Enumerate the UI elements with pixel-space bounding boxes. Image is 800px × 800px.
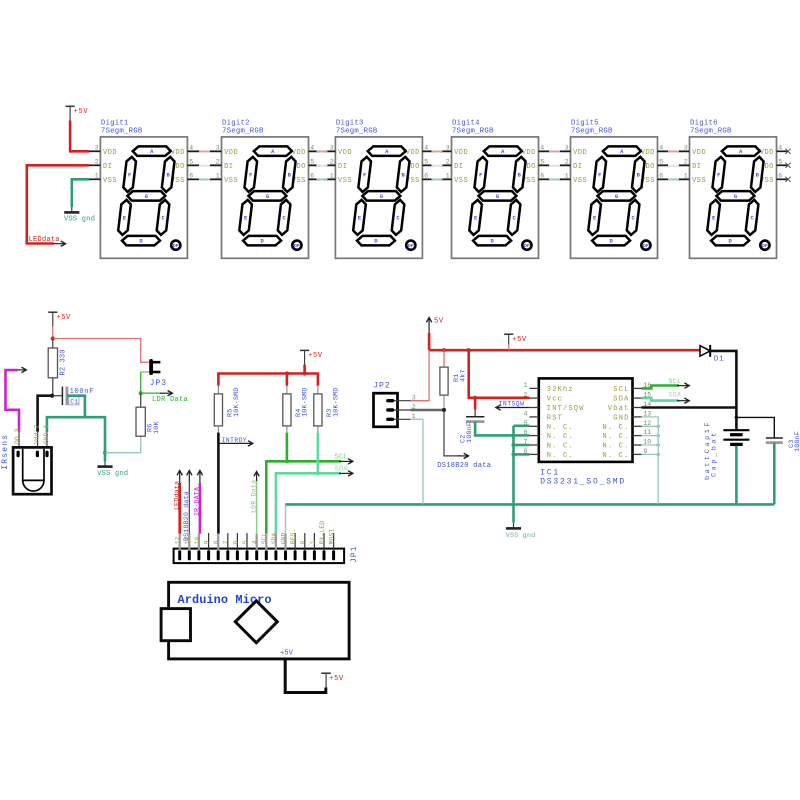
net label DS18B20 data at JP1 pin 11 (183, 471, 192, 542)
svg-text:Digit5: Digit5 (571, 120, 599, 128)
svg-text:RES.: RES. (290, 529, 297, 545)
svg-text:7Segm_RGB: 7Segm_RGB (452, 127, 494, 135)
pin header JP1 (174, 546, 359, 564)
net label SDA (IC1) (642, 391, 690, 403)
svg-text:INT/SQW: INT/SQW (547, 405, 585, 413)
svg-text:LEDdata: LEDdata (173, 481, 180, 510)
wires between Digit5 and Digit6 (VDD, DO-DI, VSS nets) (658, 151, 690, 179)
wire LDR node to R6 (140, 393, 142, 407)
wire node A to C1 (52, 395, 62, 397)
wire battery to ground rail (735, 446, 738, 505)
net label LDR Data at JP1 pin 4 (250, 472, 259, 534)
wire battery node down (735, 408, 738, 431)
svg-text:9: 9 (204, 540, 211, 544)
net label INTRDY (218, 437, 252, 446)
net label 5V (arrow, JP2 section) (426, 317, 444, 333)
svg-text:12: 12 (175, 536, 182, 544)
wire Vbat to battery/diode node (642, 406, 737, 409)
svg-text:JP1: JP1 (350, 546, 359, 563)
svg-text:100nF: 100nF (466, 422, 474, 443)
7-segment display Digit2 (210, 120, 320, 259)
junction DS18B20 node (442, 408, 446, 412)
svg-text:7: 7 (223, 540, 230, 544)
+5V power symbol (Arduino) (321, 673, 344, 687)
wire +5V to Digit1 VDD (70, 121, 89, 152)
resistor R5 10K-SMD (214, 386, 241, 433)
svg-text:C1: C1 (70, 398, 79, 405)
+5V rail (RTC section) (429, 349, 700, 352)
svg-text:4k7: 4k7 (459, 369, 467, 382)
svg-text:+5V: +5V (74, 108, 89, 116)
wire JP2 pin1 to ground rail (411, 419, 424, 504)
net label SCL (middle) (287, 454, 353, 464)
wire C3 to ground rail (773, 443, 776, 505)
wires between Digit1 and Digit2 (VDD, DO-DI, VSS nets) (187, 151, 221, 179)
wire JP2 pin2 to R1 node (411, 409, 445, 411)
wires between Digit2 and Digit3 (VDD, DO-DI, VSS nets) (309, 151, 336, 179)
svg-text:SCL: SCL (669, 378, 682, 385)
net label INTSQW (496, 401, 530, 411)
junction +5V stem (303, 371, 307, 375)
svg-text:Digit4: Digit4 (452, 120, 480, 128)
svg-text:10K: 10K (153, 421, 161, 434)
wire IR-DATA from IRsens OUT (6, 370, 20, 451)
svg-text:Digit3: Digit3 (336, 120, 364, 128)
wire R2 to node A (52, 378, 54, 396)
svg-text:10: 10 (194, 536, 201, 544)
wire C1 to ground rail (67, 396, 85, 418)
svg-text:SDA: SDA (669, 391, 682, 398)
svg-text:N. C.: N. C. (547, 443, 574, 451)
net label LEDdata at JP1 pin 12 (173, 471, 182, 534)
junction C2/Vcc (473, 396, 477, 400)
junction NC bus (656, 443, 660, 447)
svg-text:100nF: 100nF (794, 431, 800, 452)
svg-text:DS18B20 data: DS18B20 data (183, 491, 190, 541)
wire LEDdata net to Digit1 DI (27, 165, 89, 243)
wire +5V down to node (52, 326, 54, 338)
svg-text:5: 5 (242, 540, 249, 544)
svg-text:N. C.: N. C. (602, 452, 629, 460)
capacitor C2 100nF (460, 398, 485, 443)
svg-text:10K-SMD: 10K-SMD (302, 387, 310, 417)
junction NC bus (656, 425, 660, 429)
wire GND rail to JP1 GND pin (285, 504, 287, 533)
svg-text:DS3231_SO_SMD: DS3231_SO_SMD (540, 478, 626, 487)
svg-text:VSS gnd: VSS gnd (506, 532, 536, 539)
net label LEDdata (29, 236, 66, 246)
svg-text:JP2: JP2 (373, 382, 390, 391)
svg-text:7Segm_RGB: 7Segm_RGB (336, 127, 378, 135)
7-segment display Digit6 (678, 120, 788, 259)
svg-text:0: 0 (300, 540, 307, 544)
svg-text:Cap_bat: Cap_bat (710, 430, 718, 477)
junction bus pin8 (511, 452, 515, 456)
svg-text:D1: D1 (714, 355, 725, 363)
ground bus at IC1 right pins (642, 417, 659, 505)
capacitor C1 100nF (62, 387, 94, 406)
pin header JP2 (373, 382, 416, 427)
+5V power symbol (RTC section) (504, 334, 527, 350)
ground rail (main VSS net) (286, 503, 775, 506)
wire SDA net: R3 to JP1 (276, 433, 318, 534)
svg-text:IC1: IC1 (540, 469, 560, 478)
svg-text:SDA: SDA (335, 466, 349, 474)
ground rail above IRsens (47, 417, 105, 453)
svg-text:6: 6 (232, 540, 239, 544)
svg-text:2: 2 (524, 392, 528, 399)
svg-text:MOSI: MOSI (329, 529, 336, 545)
svg-text:N. C.: N. C. (602, 424, 629, 432)
net label IR-DATA arrow (IRsens output) (18, 367, 26, 372)
wire ground node to R6 (105, 436, 141, 453)
wire Digit1 VSS to ground (72, 179, 89, 207)
battery battCap1F Cap_bat (704, 420, 750, 480)
junction LDR Data node (139, 391, 143, 395)
resistor R4 10K-SMD (283, 386, 310, 433)
svg-text:DS18B20 data: DS18B20 data (437, 462, 491, 470)
svg-text:32Khz: 32Khz (547, 386, 574, 394)
svg-text:Digit1: Digit1 (101, 120, 129, 128)
net label SDA (middle) (318, 466, 353, 476)
ground symbol VSS gnd (centre) (506, 504, 536, 538)
wire +5V to IC1 Vcc (469, 350, 530, 398)
svg-text:+5V: +5V (56, 314, 71, 322)
wire Arduino +5V (285, 659, 326, 693)
svg-text:3: 3 (412, 394, 416, 401)
wires between Digit4 and Digit5 (VDD, DO-DI, VSS nets) (539, 151, 571, 179)
svg-text:RST: RST (547, 414, 563, 422)
RTC IC1 DS3231_SO_SMD (524, 378, 652, 486)
wire +5V node to JP3 pin1 (53, 339, 149, 363)
svg-text:10K-SMD: 10K-SMD (333, 387, 341, 417)
svg-text:5V: 5V (434, 317, 444, 325)
svg-text:Digit2: Digit2 (222, 120, 250, 128)
svg-text:RX-LED: RX-LED (319, 521, 326, 544)
+5V power symbol (pull-up resistors) (300, 350, 323, 364)
svg-text:+5V: +5V (280, 649, 294, 657)
svg-text:N. C.: N. C. (602, 433, 629, 441)
wire battery node to C3 (736, 417, 774, 438)
svg-text:SCL: SCL (261, 532, 268, 544)
svg-text:7Segm_RGB: 7Segm_RGB (690, 127, 732, 135)
svg-text:Vdd 2: Vdd 2 (33, 424, 40, 444)
wires between Digit3 and Digit4 (VDD, DO-DI, VSS nets) (422, 151, 451, 179)
+5V rail to pull-up resistors (218, 365, 318, 386)
junction bus pin7 (511, 443, 515, 447)
wire SCL net: R4 to JP1 (266, 433, 287, 534)
svg-text:IRsens: IRsens (1, 434, 10, 470)
svg-text:LEDdata: LEDdata (29, 236, 60, 244)
svg-text:DO 3: DO 3 (14, 428, 21, 444)
junction Vcc branch (467, 348, 471, 352)
junction node +5V/R2/JP3 (51, 336, 55, 340)
svg-text:Vbat: Vbat (608, 405, 630, 413)
svg-text:SDA: SDA (271, 532, 278, 544)
resistor R3 10K-SMD (314, 386, 341, 433)
+5V power symbol (top left) (66, 106, 89, 120)
wire node to R2 (52, 339, 54, 349)
resistor R2 330 (48, 348, 67, 378)
junction SCL node (285, 459, 289, 463)
svg-text:4: 4 (524, 411, 528, 418)
7-segment display Digit4 (440, 120, 550, 259)
svg-text:N. C.: N. C. (547, 452, 574, 460)
svg-text:GND: GND (613, 414, 629, 422)
wire node A to IRsens Vdd (38, 396, 53, 451)
wire 5V arrow to +5V rail (428, 333, 431, 350)
svg-text:+5V: +5V (329, 675, 344, 683)
svg-text:VSS gnd: VSS gnd (97, 470, 128, 478)
svg-text:N. C.: N. C. (547, 433, 574, 441)
svg-text:+5V: +5V (512, 336, 527, 344)
wire JP3 pin2 to LDR node (141, 372, 149, 393)
svg-text:Vcc: Vcc (547, 396, 563, 404)
svg-text:7Segm_RGB: 7Segm_RGB (101, 127, 143, 135)
diode D1 (700, 345, 724, 364)
junction NC bus (656, 434, 660, 438)
junction node A (R2/C1/IRsens Vdd) (50, 394, 54, 398)
junction NC bus (656, 453, 660, 457)
wire +5V rail down to JP2 pin 3 (411, 350, 430, 401)
svg-text:4: 4 (252, 540, 259, 544)
svg-text:R2 330: R2 330 (60, 349, 68, 375)
wire C2 to IC1 NC pins bus (475, 422, 513, 436)
svg-text:1: 1 (309, 540, 316, 544)
net label SCL (IC1) (642, 378, 690, 388)
svg-text:SDA: SDA (613, 396, 629, 404)
svg-text:1: 1 (524, 382, 528, 389)
svg-text:Digit6: Digit6 (690, 120, 718, 128)
7-segment display Digit1 (89, 120, 199, 259)
svg-text:7Segm_RGB: 7Segm_RGB (571, 127, 613, 135)
svg-text:LDR Data: LDR Data (152, 396, 188, 404)
svg-text:+5V: +5V (308, 352, 323, 360)
net label IR-DATA at JP1 pin 10 (194, 471, 203, 534)
svg-text:10K-SMD: 10K-SMD (233, 387, 241, 417)
wire INTRDY net: R5 to JP1 pin 8 (217, 433, 220, 534)
svg-text:8: 8 (524, 448, 528, 455)
svg-text:N. C.: N. C. (602, 443, 629, 451)
net label DS18B20 data (JP2 section) (437, 410, 491, 470)
junction ground node (VSS gnd / R6) (103, 451, 107, 455)
svg-text:SCL: SCL (335, 454, 349, 462)
7-segment display Digit5 (559, 120, 669, 259)
junction R1/+5V rail (442, 348, 446, 352)
junction SDA node (316, 471, 320, 475)
svg-text:JP3: JP3 (150, 379, 167, 388)
svg-text:6: 6 (524, 429, 528, 436)
+5V power symbol (IR sensor section) (48, 312, 71, 326)
svg-text:INTSQW: INTSQW (499, 401, 525, 408)
svg-text:8: 8 (213, 540, 220, 544)
JP1 pin stubs and pin names (175, 521, 336, 550)
svg-text:GND: GND (280, 532, 287, 544)
svg-text:SCL: SCL (613, 386, 629, 394)
svg-text:LDR Data: LDR Data (250, 480, 257, 513)
svg-text:5: 5 (524, 420, 528, 427)
svg-text:7: 7 (524, 439, 528, 446)
svg-text:N. C.: N. C. (547, 424, 574, 432)
7-segment display Digit3 (324, 120, 434, 259)
ground symbol VSS gnd (IR sensor) (97, 453, 128, 478)
ground symbol VSS gnd (top left) (64, 207, 95, 224)
junction +5V/R4 (285, 371, 289, 375)
resistor R6 10K (136, 407, 161, 436)
junction bus pin6 (511, 433, 515, 437)
svg-text:INTRDY: INTRDY (222, 437, 248, 444)
capacitor C3 100nF (766, 431, 800, 452)
svg-text:IR-DATA: IR-DATA (194, 487, 201, 516)
junction battery/C3 (735, 416, 739, 420)
pin header JP3 (149, 359, 167, 388)
ground bus at IC1 left pins (514, 426, 530, 505)
svg-text:GND 1: GND 1 (43, 424, 50, 444)
net label LDR Data (141, 391, 188, 404)
resistor R1 4k7 (440, 350, 468, 410)
svg-text:7Segm_RGB: 7Segm_RGB (222, 127, 264, 135)
open net ends right of Digit6 (785, 149, 790, 182)
IR receiver IRsens (1, 424, 52, 494)
Arduino Micro module (161, 582, 349, 659)
wire D1 cathode to battery (710, 351, 736, 408)
svg-text:VSS gnd: VSS gnd (64, 216, 95, 224)
